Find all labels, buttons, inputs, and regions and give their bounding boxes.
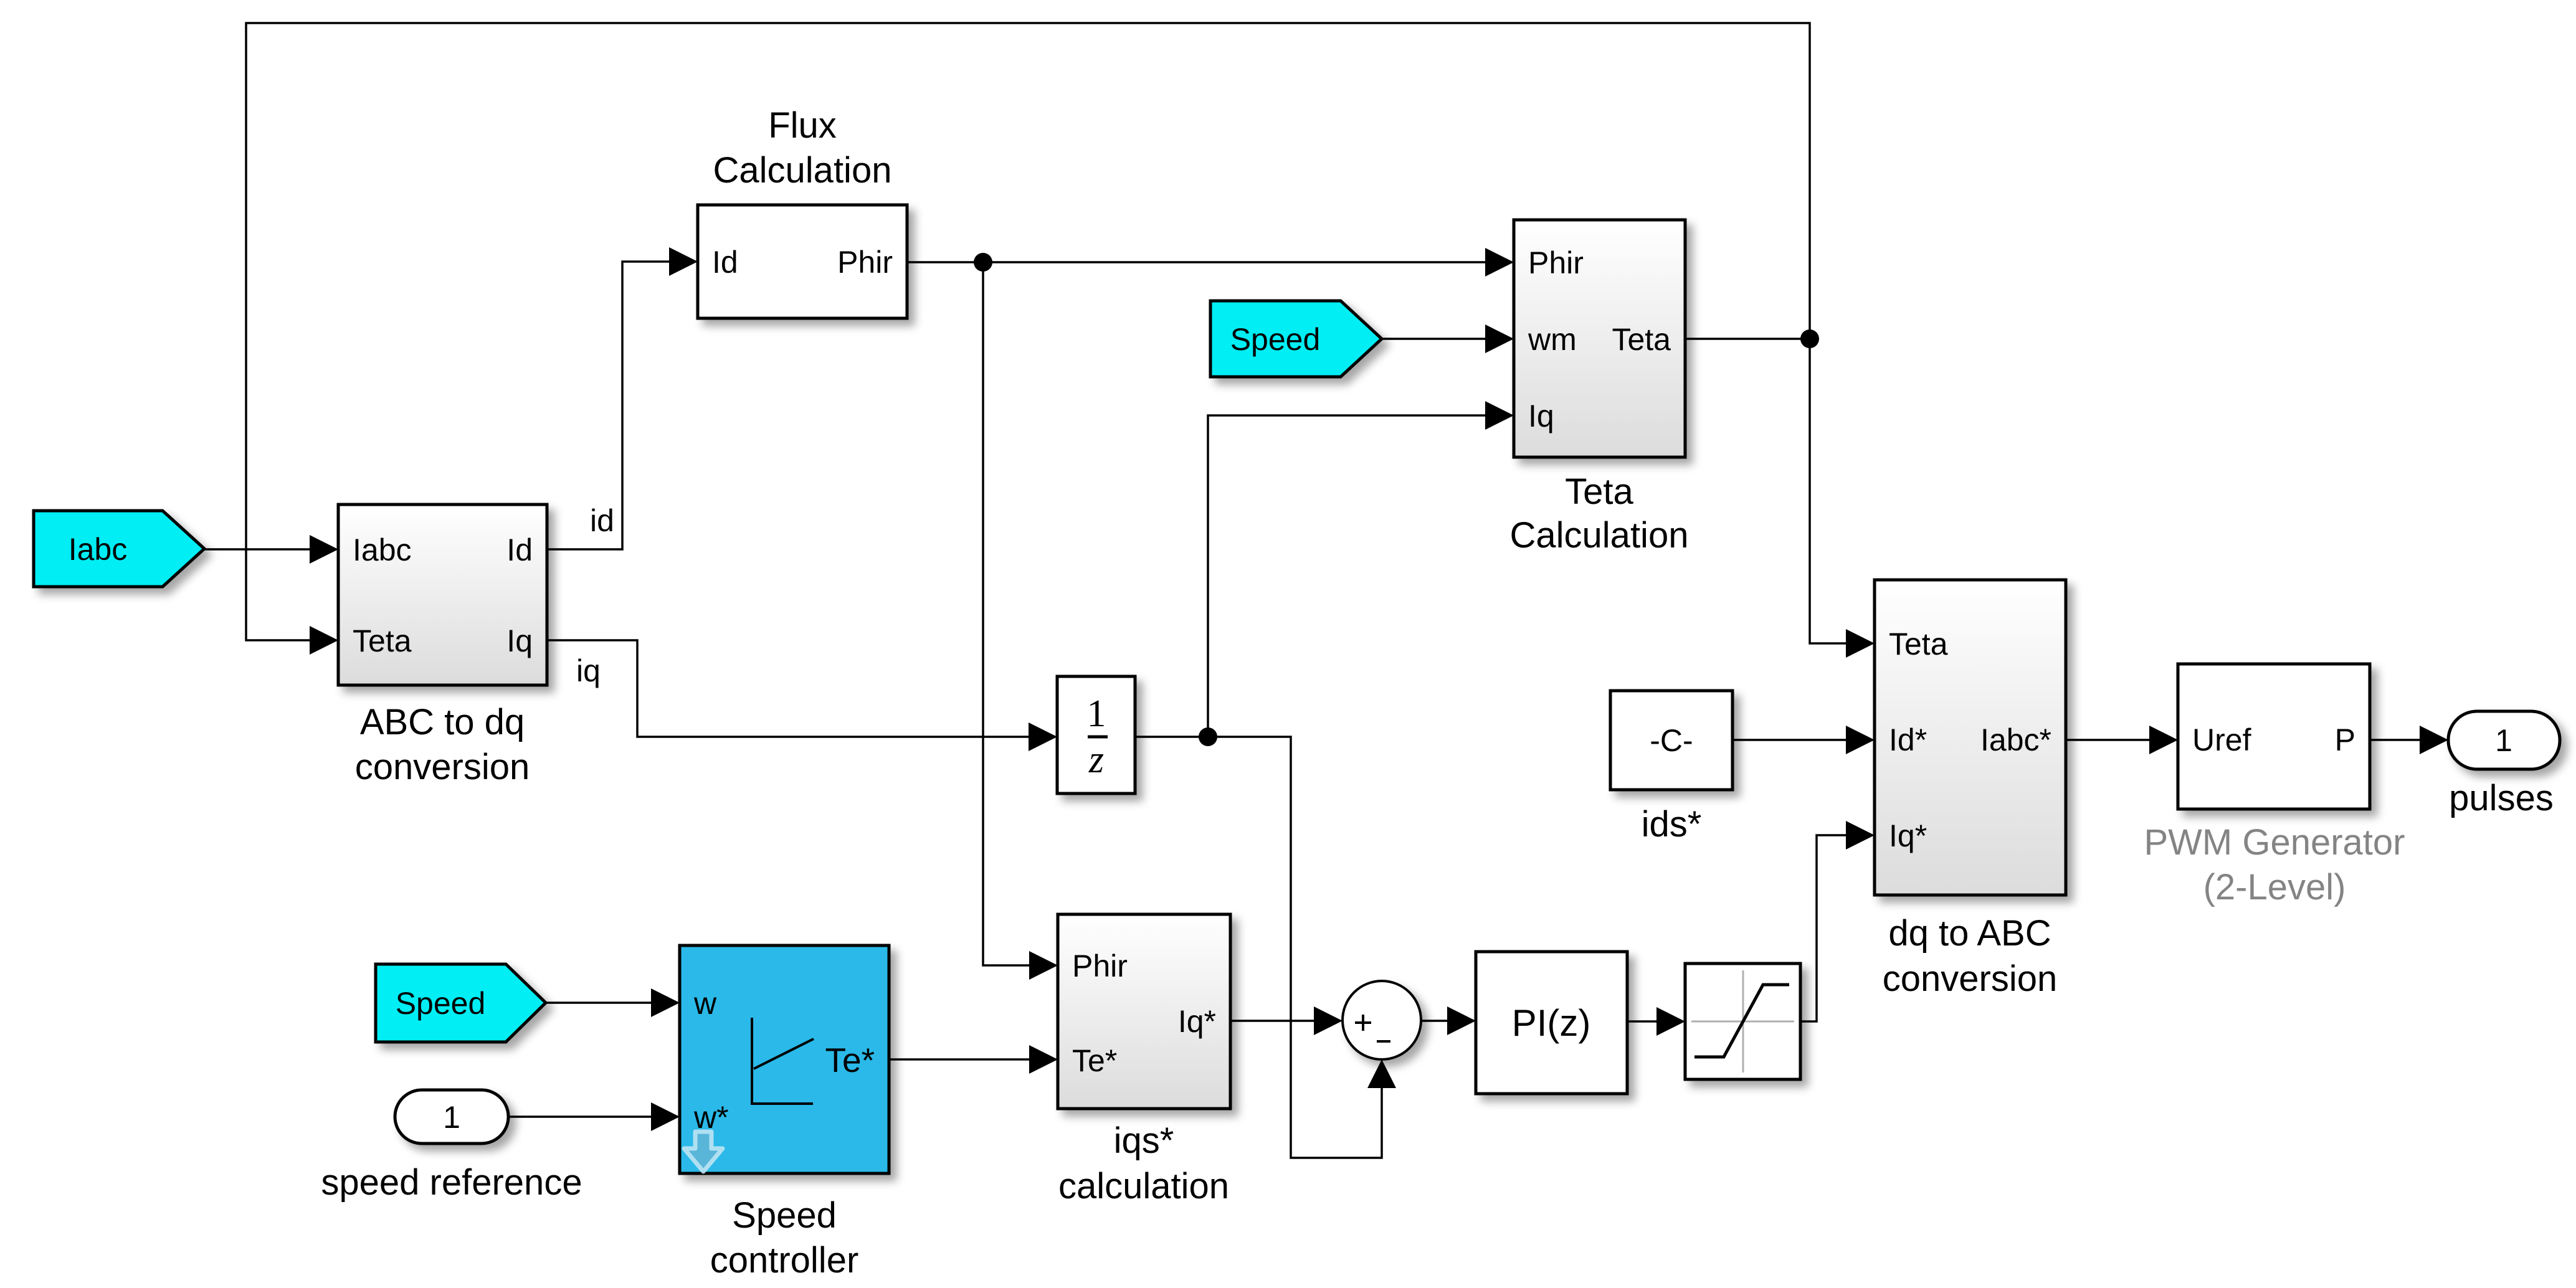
svg-text:Flux: Flux — [768, 105, 837, 146]
svg-text:(2-Level): (2-Level) — [2203, 867, 2346, 907]
svg-text:Speed: Speed — [396, 986, 486, 1021]
svg-text:Phir: Phir — [1528, 245, 1584, 280]
svg-text:Id: Id — [506, 533, 533, 567]
svg-text:Id*: Id* — [1889, 722, 1927, 757]
svg-text:speed reference: speed reference — [321, 1162, 582, 1203]
svg-text:Calculation: Calculation — [1510, 515, 1689, 556]
svg-text:conversion: conversion — [1883, 959, 2057, 999]
svg-text:Teta: Teta — [353, 623, 412, 658]
svg-text:iqs*: iqs* — [1114, 1120, 1174, 1161]
svg-text:Id: Id — [712, 245, 738, 280]
svg-text:PI(z): PI(z) — [1512, 1002, 1591, 1044]
svg-text:pulses: pulses — [2449, 778, 2554, 818]
svg-text:Uref: Uref — [2192, 722, 2251, 757]
svg-text:Teta: Teta — [1565, 471, 1633, 512]
svg-text:Te*: Te* — [1072, 1043, 1117, 1078]
svg-text:Iabc: Iabc — [353, 533, 412, 567]
svg-text:Iq: Iq — [1528, 399, 1554, 433]
svg-text:ABC to dq: ABC to dq — [360, 702, 525, 742]
svg-text:PWM Generator: PWM Generator — [2144, 822, 2405, 863]
svg-text:1: 1 — [1087, 693, 1106, 735]
svg-text:conversion: conversion — [355, 747, 530, 787]
svg-text:Iabc*: Iabc* — [1980, 722, 2051, 757]
svg-text:id: id — [590, 503, 614, 538]
svg-text:Iq*: Iq* — [1178, 1004, 1216, 1039]
svg-text:Iq: Iq — [506, 623, 533, 658]
svg-text:dq to ABC: dq to ABC — [1888, 913, 2051, 954]
svg-text:Phir: Phir — [1072, 949, 1128, 983]
svg-text:Teta: Teta — [1612, 322, 1671, 357]
svg-text:Speed: Speed — [1230, 322, 1321, 357]
svg-text:Iabc: Iabc — [69, 532, 128, 567]
svg-text:1: 1 — [2495, 723, 2512, 758]
svg-text:Phir: Phir — [837, 245, 893, 280]
svg-text:Speed: Speed — [732, 1195, 837, 1236]
svg-text:Teta: Teta — [1889, 627, 1948, 661]
svg-text:calculation: calculation — [1058, 1166, 1229, 1206]
svg-text:iq: iq — [576, 653, 601, 688]
svg-text:P: P — [2335, 722, 2355, 757]
svg-text:ids*: ids* — [1642, 804, 1702, 845]
svg-text:Te*: Te* — [825, 1041, 875, 1079]
svg-text:1: 1 — [443, 1100, 460, 1135]
svg-text:controller: controller — [710, 1240, 859, 1281]
svg-text:Calculation: Calculation — [713, 150, 892, 191]
svg-text:-C-: -C- — [1650, 723, 1693, 758]
svg-text:Iq*: Iq* — [1889, 818, 1927, 853]
svg-text:wm: wm — [1528, 322, 1577, 357]
svg-text:z: z — [1088, 739, 1104, 781]
svg-text:w: w — [693, 986, 717, 1021]
